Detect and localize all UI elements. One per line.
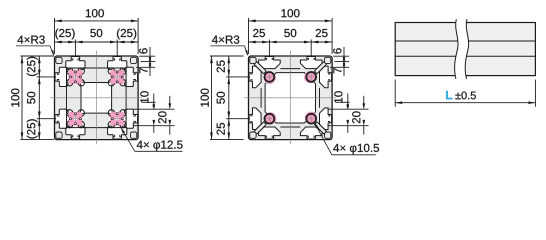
dim (25) 50 (25) top P1 [74,40,76,57]
side view bar [395,23,535,76]
profile 1 cross-section body (100x100, slots at 25/75) [50,51,142,145]
dim 100 top P1 [54,18,56,54]
dim 100 top P2 [248,18,250,54]
break gap [455,19,469,79]
dim 25 50 25 top P2 [268,40,270,57]
dim (25) 50 (25) left P1 [37,76,56,78]
label 4x phi 10.5 P2 [314,122,318,128]
dims 6 and 7 right-top P2 [333,55,349,57]
dims 6 and 7 right-top P1 [139,55,155,57]
dim 100 left P2 [210,55,244,57]
label 4x phi 12.5 P1 [121,127,125,133]
dim 25 50 25 left P2 [226,76,250,78]
label 4xR3 P1 [17,36,44,44]
dims 10 and 20 right P2 [337,101,350,103]
dims 10 and 20 right P1 [143,101,156,103]
profile 2 cross-section body (100x100, round core holes) [244,51,336,145]
dim L +-0.5 [394,80,396,107]
label 4xR3 P2 [212,36,239,44]
dim 100 left P1 [21,55,55,57]
